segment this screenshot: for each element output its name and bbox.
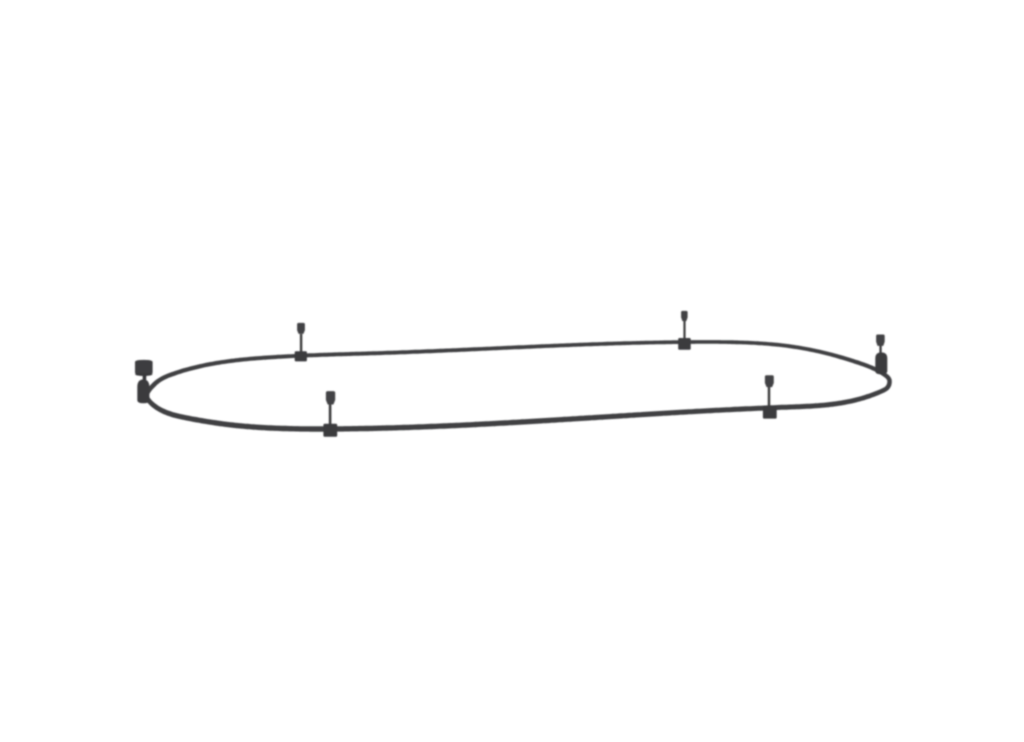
clip C4 stem: [768, 387, 771, 408]
clip C4 hanger knob: [765, 375, 774, 387]
clip C2 hanger knob: [681, 311, 688, 321]
clip C1 hanger knob: [297, 323, 305, 334]
right end connector top knob: [876, 335, 885, 346]
clip C2 block: [678, 338, 691, 350]
clip C4 block: [763, 406, 777, 418]
clip C3 block: [323, 424, 337, 437]
clip C3 hanger knob: [326, 391, 335, 404]
right end connector body: [875, 352, 887, 374]
clip C1 stem: [300, 334, 302, 352]
clip C3 stem: [329, 405, 332, 426]
right end connector stem: [879, 346, 881, 354]
left end-feed neck: [143, 375, 147, 380]
clip C2 stem: [683, 321, 685, 340]
track rail loop: [144, 340, 892, 432]
clip C1 block: [295, 351, 307, 361]
left end-feed canopy cap: [135, 360, 153, 375]
left end-feed body: [137, 379, 149, 403]
left end-feed cap bottom rim: [135, 373, 152, 376]
